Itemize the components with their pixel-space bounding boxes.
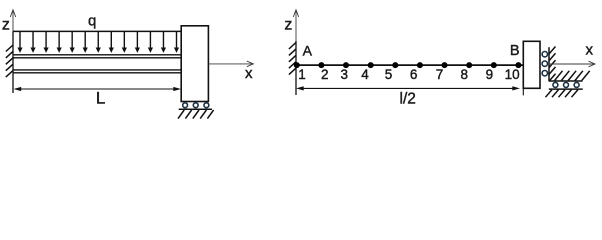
svg-text:z: z	[2, 16, 10, 33]
dimension line L (fig1)	[14, 87, 182, 91]
svg-text:5: 5	[385, 67, 393, 82]
svg-text:A: A	[303, 43, 313, 59]
z axis (fig2)	[293, 10, 298, 42]
dimension line l/2 (fig2)	[296, 86, 520, 90]
hatching above corner line (fig2)	[555, 71, 590, 81]
svg-text:q: q	[88, 12, 96, 29]
z axis (fig1)	[10, 10, 15, 32]
x axis (fig2)	[549, 61, 595, 67]
svg-text:B: B	[510, 43, 520, 59]
column / right block (fig1)	[181, 26, 208, 102]
wall hatching left (fig2)	[289, 43, 296, 75]
beam line (fig2)	[296, 64, 523, 66]
svg-text:8: 8	[460, 67, 468, 82]
ground line (fig1)	[179, 108, 212, 110]
right wall hatching (fig2)	[549, 47, 556, 82]
distributed load line q (fig1)	[13, 30, 181, 32]
corner top line (fig2)	[549, 80, 583, 82]
dimension extension line right (fig2)	[522, 88, 524, 95]
svg-text:2: 2	[321, 67, 329, 82]
wall / extension line (fig2)	[295, 41, 297, 95]
bottom rollers (fig2)	[553, 82, 579, 87]
wall hatching left (fig1)	[6, 45, 13, 77]
nodes 1-10 (fig2)	[294, 62, 522, 68]
svg-text:7: 7	[436, 67, 444, 82]
svg-text:6: 6	[410, 67, 418, 82]
svg-text:4: 4	[361, 67, 369, 82]
beam (fig1): four horizontal lines	[13, 55, 181, 73]
node numbers (fig2)	[298, 67, 519, 82]
wall / extension line (fig1)	[12, 32, 14, 94]
svg-text:1: 1	[298, 67, 306, 82]
bottom ground line (fig2)	[549, 88, 583, 90]
svg-text:3: 3	[340, 67, 348, 82]
svg-text:x: x	[586, 41, 594, 58]
right wall line (fig2)	[548, 47, 550, 81]
rollers under column (fig1)	[183, 103, 209, 108]
x axis (fig1)	[209, 61, 254, 67]
column / right block (fig2)	[523, 41, 540, 88]
svg-text:z: z	[284, 16, 292, 33]
load arrows (13)	[17, 32, 179, 53]
svg-text:l/2: l/2	[400, 91, 416, 108]
svg-text:9: 9	[486, 67, 494, 82]
bottom ground hatching (fig2)	[546, 90, 579, 98]
svg-text:L: L	[96, 89, 105, 108]
ground hatching (fig1)	[178, 110, 214, 119]
svg-text:x: x	[245, 65, 253, 82]
vertical roller stack right of column (fig2)	[542, 52, 547, 76]
svg-text:10: 10	[505, 67, 520, 82]
